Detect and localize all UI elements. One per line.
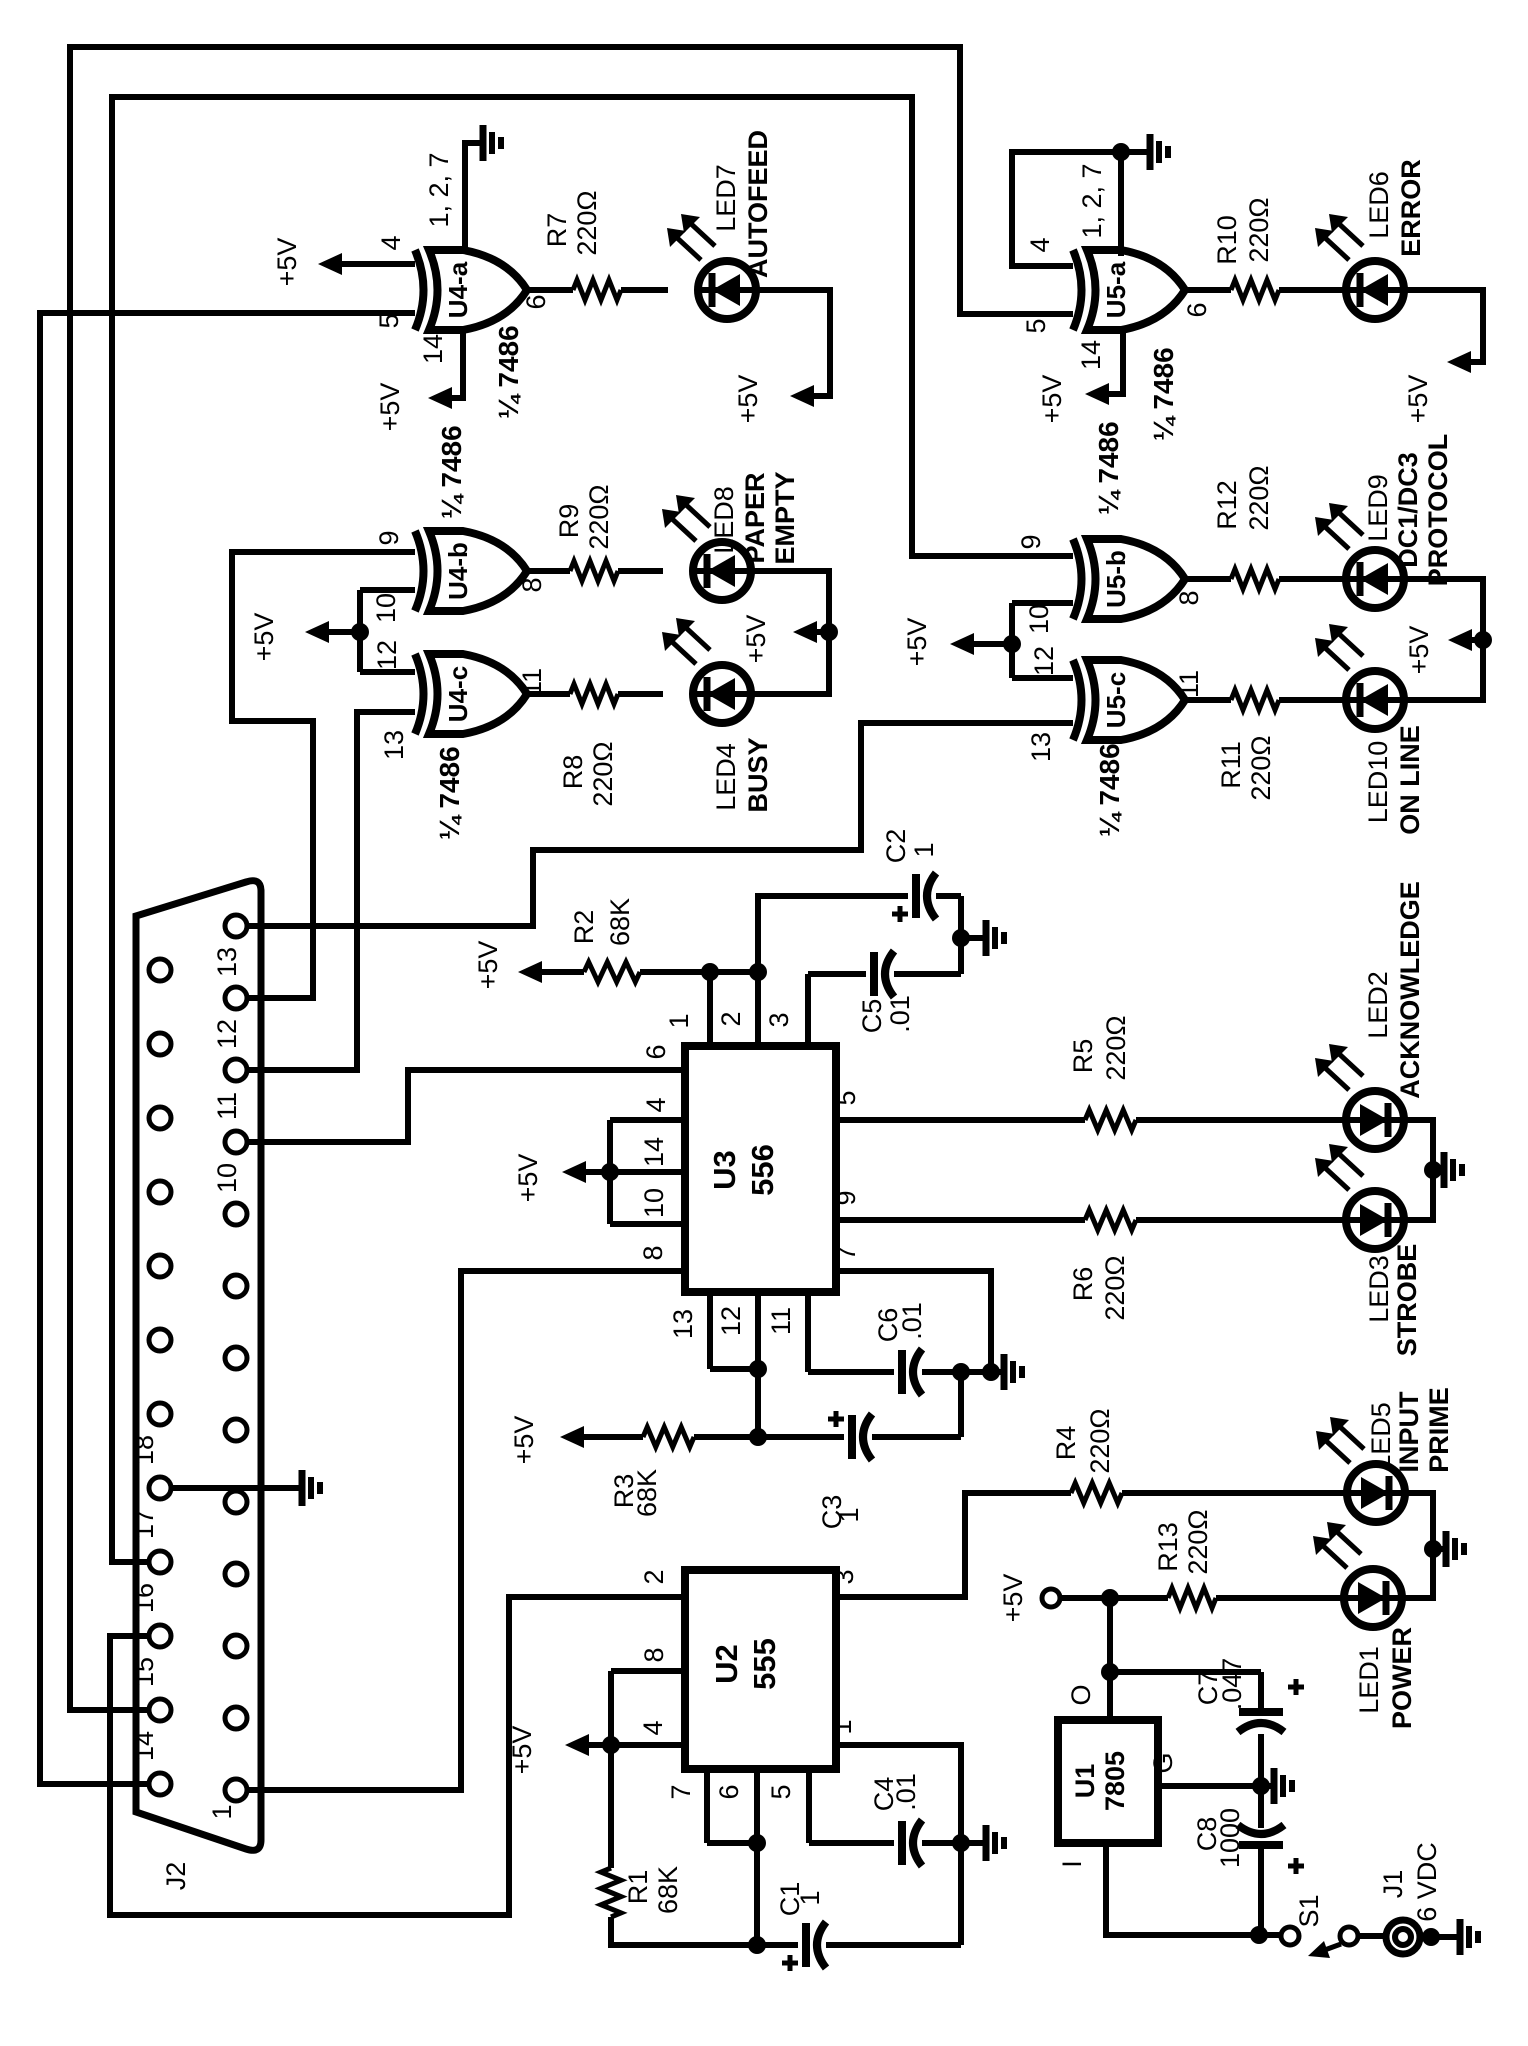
wire J2 pin 15 to U5-a pin 5 xyxy=(70,47,1073,1710)
svg-text:68K: 68K xyxy=(605,898,635,946)
svg-text:7: 7 xyxy=(666,1784,696,1799)
svg-text:14: 14 xyxy=(129,1731,159,1761)
svg-text:11: 11 xyxy=(766,1307,796,1335)
+5V arrow at U4 pins 10,12 xyxy=(351,623,369,641)
J2 pin 19 xyxy=(149,1403,171,1425)
xor gate U4-b (1/4 7486) xyxy=(415,531,424,611)
+5V terminal xyxy=(1042,1589,1060,1607)
+5V arrow at U2 pin 4 xyxy=(602,1736,620,1754)
svg-text:POWER: POWER xyxy=(1387,1627,1417,1729)
svg-text:3: 3 xyxy=(764,1012,794,1027)
svg-text:¼ 7486: ¼ 7486 xyxy=(436,425,467,518)
svg-text:8: 8 xyxy=(638,1245,668,1260)
svg-text:3: 3 xyxy=(829,1569,859,1584)
wire U2 pin 3 to R4 xyxy=(836,1493,1071,1597)
svg-text:1: 1 xyxy=(207,1804,237,1819)
svg-text:+5V: +5V xyxy=(741,615,771,664)
wire U4-b pin 10 / U4-c pin 12 tie xyxy=(360,587,415,593)
svg-text:7805: 7805 xyxy=(1100,1751,1130,1811)
svg-text:10: 10 xyxy=(371,593,401,623)
svg-text:11: 11 xyxy=(212,1092,242,1120)
resistor R11 220 ohm xyxy=(1185,697,1231,703)
svg-text:R8: R8 xyxy=(558,755,588,790)
svg-text:16: 16 xyxy=(129,1583,159,1613)
svg-text:J1: J1 xyxy=(1378,1870,1408,1899)
svg-text:15: 15 xyxy=(129,1657,159,1687)
wire U2 pin 8/4 tie xyxy=(611,1668,685,1674)
resistor R4 220 ohm xyxy=(1071,1483,1122,1503)
svg-text:14: 14 xyxy=(1076,340,1106,370)
capacitor C2 1uF xyxy=(758,896,908,972)
J2 pin 21 xyxy=(149,1255,171,1277)
svg-text:¼ 7486: ¼ 7486 xyxy=(1094,743,1125,836)
svg-text:R1: R1 xyxy=(623,1870,653,1905)
wire U2 pin 1 to ground xyxy=(836,1745,961,1843)
ground at LED2/LED3 xyxy=(1404,1120,1433,1220)
resistor R9 220 ohm xyxy=(527,568,570,574)
resistor R13 220 ohm xyxy=(1168,1588,1216,1608)
svg-text:O: O xyxy=(1066,1684,1096,1705)
svg-text:8: 8 xyxy=(639,1647,669,1662)
resistor R10 220 ohm xyxy=(1185,287,1231,293)
svg-text:INPUT: INPUT xyxy=(1394,1391,1424,1473)
svg-text:U1: U1 xyxy=(1070,1764,1100,1799)
svg-text:+5V: +5V xyxy=(509,1416,539,1465)
svg-text:68K: 68K xyxy=(653,1866,683,1914)
svg-text:13: 13 xyxy=(1026,732,1056,762)
svg-text:6: 6 xyxy=(521,294,551,309)
svg-text:8: 8 xyxy=(1174,590,1204,605)
+5V arrow at LED6 return xyxy=(1404,290,1483,362)
svg-text:17: 17 xyxy=(129,1509,159,1539)
svg-text:U4-c: U4-c xyxy=(443,666,473,722)
svg-text:R4: R4 xyxy=(1051,1426,1081,1461)
xor gate U5-b (1/4 7486) xyxy=(1073,539,1082,619)
svg-text:+5V: +5V xyxy=(272,238,302,287)
svg-text:R2: R2 xyxy=(569,910,599,945)
regulator U1 7805 xyxy=(1058,1720,1158,1843)
xor gate U5-a (1/4 7486) xyxy=(1073,250,1082,330)
wire U3 pin 4/14/10 tie xyxy=(610,1117,685,1123)
J2 pin 16 xyxy=(149,1625,171,1647)
svg-text:10: 10 xyxy=(212,1163,242,1193)
svg-text:.01: .01 xyxy=(891,1773,921,1811)
svg-text:LED6: LED6 xyxy=(1364,171,1394,239)
wire U3 pin 7 to ground xyxy=(836,1271,991,1372)
+5V arrow at U3 pin 14 xyxy=(601,1163,619,1181)
svg-text:220Ω: 220Ω xyxy=(588,741,618,806)
svg-text:14: 14 xyxy=(418,334,448,364)
svg-text:5: 5 xyxy=(766,1784,796,1799)
svg-text:R7: R7 xyxy=(542,213,572,248)
switch S1 xyxy=(1281,1927,1299,1945)
timer U3 556 xyxy=(685,1046,836,1292)
J2 pin 1 xyxy=(225,1779,247,1801)
node U3 pin 1 xyxy=(701,963,719,981)
wire J2 pin 16 to U2 pin 2 xyxy=(110,1597,685,1915)
svg-text:R10: R10 xyxy=(1212,215,1242,265)
J2 pin 8 xyxy=(225,1275,247,1297)
svg-text:4: 4 xyxy=(638,1720,668,1735)
svg-text:+5V: +5V xyxy=(902,618,932,667)
wire U1 pin O to +5V node xyxy=(1107,1598,1113,1720)
node U3 pin 2 xyxy=(749,963,767,981)
svg-text:I: I xyxy=(1057,1860,1087,1868)
svg-text:R11: R11 xyxy=(1216,741,1246,789)
resistor R12 220 ohm xyxy=(1185,576,1231,582)
svg-text:2: 2 xyxy=(716,1011,746,1026)
svg-text:¼ 7486: ¼ 7486 xyxy=(1148,347,1179,440)
J2 pin 15 xyxy=(149,1699,171,1721)
svg-text:9: 9 xyxy=(1016,534,1046,549)
svg-text:6 VDC: 6 VDC xyxy=(1412,1842,1442,1922)
svg-text:+5V: +5V xyxy=(507,1726,537,1775)
svg-text:6: 6 xyxy=(714,1784,744,1799)
+5V arrow at LED9/LED10 return xyxy=(1404,579,1483,700)
svg-text:J2: J2 xyxy=(161,1862,191,1891)
svg-text:U2: U2 xyxy=(709,1644,744,1684)
svg-text:LED3: LED3 xyxy=(1364,1255,1394,1323)
svg-text:DC1/DC3: DC1/DC3 xyxy=(1393,452,1423,568)
svg-text:9: 9 xyxy=(831,1190,861,1205)
svg-text:+5V: +5V xyxy=(249,613,279,662)
svg-text:LED1: LED1 xyxy=(1354,1646,1384,1714)
LED8 PAPER EMPTY xyxy=(693,542,751,600)
wire U1 pin I to S1 xyxy=(1106,1843,1281,1935)
node R13/U1 xyxy=(1101,1589,1119,1607)
resistor R5 220 ohm xyxy=(836,1117,1085,1123)
svg-text:6: 6 xyxy=(1182,302,1212,317)
svg-text:220Ω: 220Ω xyxy=(572,190,602,255)
svg-text:220Ω: 220Ω xyxy=(1101,1015,1131,1080)
ground at U5-a pins 1,2,7 xyxy=(1112,143,1130,161)
svg-text:R6: R6 xyxy=(1068,1267,1098,1302)
capacitor C7 .047 xyxy=(1110,1669,1261,1675)
svg-text:AUTOFEED: AUTOFEED xyxy=(743,130,773,278)
svg-text:.047: .047 xyxy=(1217,1658,1247,1711)
timer U2 555 xyxy=(685,1570,836,1769)
capacitor C6 .01 xyxy=(805,1292,811,1372)
svg-text:1, 2, 7: 1, 2, 7 xyxy=(1077,163,1107,238)
svg-text:LED4: LED4 xyxy=(711,743,741,811)
wire U5-a pin 4 loop xyxy=(1012,152,1121,266)
J2 pin 2 xyxy=(225,1707,247,1729)
svg-text:R12: R12 xyxy=(1212,480,1242,530)
xor gate U4-a (1/4 7486) xyxy=(415,250,424,330)
+5V arrow at LED8/LED4 return xyxy=(751,571,829,694)
svg-text:220Ω: 220Ω xyxy=(1244,465,1274,530)
svg-text:8: 8 xyxy=(517,577,547,592)
svg-text:+5V: +5V xyxy=(1037,375,1067,424)
svg-text:556: 556 xyxy=(745,1144,780,1196)
ground at J1 xyxy=(1420,1934,1432,1940)
svg-text:EMPTY: EMPTY xyxy=(770,471,800,564)
svg-text:12: 12 xyxy=(212,1019,242,1049)
LED1 POWER xyxy=(1344,1569,1402,1627)
svg-text:+5V: +5V xyxy=(1403,375,1433,424)
J2 pin 9 xyxy=(225,1203,247,1225)
connector J2 (DB25) xyxy=(136,881,261,1851)
svg-text:LED2: LED2 xyxy=(1363,971,1393,1039)
J2 pin 24 xyxy=(149,1033,171,1055)
svg-text:+5V: +5V xyxy=(473,941,503,990)
svg-text:LED5: LED5 xyxy=(1366,1402,1396,1470)
+5V arrow at U4-a pin 14 xyxy=(446,330,463,398)
svg-text:¼ 7486: ¼ 7486 xyxy=(434,746,465,839)
LED7 AUTOFEED xyxy=(698,261,756,319)
wire J2 pin 11 to U4-c pin 13 xyxy=(247,712,415,1070)
resistor R8 220 ohm xyxy=(527,691,570,697)
svg-text:555: 555 xyxy=(747,1638,782,1690)
svg-text:C2: C2 xyxy=(881,829,911,864)
+5V arrow at U5 pins 10,12 xyxy=(1003,635,1021,653)
LED4 BUSY xyxy=(693,665,751,723)
svg-text:7: 7 xyxy=(831,1245,861,1260)
ground at C2/C5 xyxy=(952,929,970,947)
svg-text:¼ 7486: ¼ 7486 xyxy=(493,325,524,418)
svg-text:U4-a: U4-a xyxy=(443,261,473,318)
svg-text:LED10: LED10 xyxy=(1363,741,1393,824)
capacitor C3 1uF xyxy=(749,1428,767,1446)
LED5 INPUT PRIME xyxy=(1347,1464,1405,1522)
svg-text:1: 1 xyxy=(827,1719,857,1734)
svg-text:+5V: +5V xyxy=(733,375,763,424)
capacitor C5 .01 xyxy=(805,974,811,1046)
+5V arrow at LED7 return xyxy=(756,290,830,396)
svg-text:6: 6 xyxy=(641,1044,671,1059)
svg-text:12: 12 xyxy=(372,640,402,670)
svg-text:220Ω: 220Ω xyxy=(1244,197,1274,262)
ground at U2 pin 1 / C4 / C1 xyxy=(952,1834,970,1852)
J2 pin 25 xyxy=(149,959,171,981)
J2 pin 23 xyxy=(149,1107,171,1129)
J2 pin 7 xyxy=(225,1347,247,1369)
svg-text:R13: R13 xyxy=(1153,1522,1183,1572)
svg-text:9: 9 xyxy=(374,530,404,545)
svg-text:G: G xyxy=(1148,1752,1178,1773)
wire U3 pin 13/12 tie xyxy=(707,1292,713,1369)
J2 pin 11 xyxy=(225,1059,247,1081)
svg-text:U5-c: U5-c xyxy=(1101,672,1131,728)
svg-text:13: 13 xyxy=(668,1309,698,1339)
svg-text:.01: .01 xyxy=(885,995,915,1033)
svg-text:11: 11 xyxy=(1174,670,1204,698)
svg-text:13: 13 xyxy=(212,947,242,977)
svg-text:PRIME: PRIME xyxy=(1424,1387,1454,1473)
ground at U4-a pins 1,2,7 xyxy=(465,143,473,250)
LED2 ACKNOWLEDGE xyxy=(1346,1091,1404,1149)
wire J2 pin 10 to U3 pin 6 xyxy=(247,1070,685,1142)
svg-text:U5-b: U5-b xyxy=(1101,550,1131,608)
svg-text:2: 2 xyxy=(639,1569,669,1584)
wire J2 pin 13 to U5-c pin 13 xyxy=(247,723,1073,926)
svg-text:220Ω: 220Ω xyxy=(1100,1255,1130,1320)
J2 pin 22 xyxy=(149,1181,171,1203)
svg-text:12: 12 xyxy=(1029,646,1059,676)
capacitor C1 1uF xyxy=(757,1942,798,1948)
svg-text:PROTOCOL: PROTOCOL xyxy=(1423,434,1453,587)
capacitor C8 1000uF xyxy=(1258,1786,1264,1828)
svg-text:ERROR: ERROR xyxy=(1396,159,1426,257)
J2 pin 3 xyxy=(225,1635,247,1657)
svg-text:ON LINE: ON LINE xyxy=(1395,725,1425,835)
svg-text:LED8: LED8 xyxy=(709,486,739,554)
svg-text:.01: .01 xyxy=(897,1302,927,1340)
svg-text:10: 10 xyxy=(639,1188,669,1218)
svg-text:C5: C5 xyxy=(857,999,887,1034)
svg-text:1: 1 xyxy=(834,1507,864,1522)
svg-text:10: 10 xyxy=(1024,604,1054,634)
svg-text:5: 5 xyxy=(1021,318,1051,333)
svg-text:LED9: LED9 xyxy=(1363,474,1393,542)
wire U2 pin 7/6 tie xyxy=(704,1769,710,1843)
LED6 ERROR xyxy=(1346,261,1404,319)
svg-text:ACKNOWLEDGE: ACKNOWLEDGE xyxy=(1395,881,1425,1099)
svg-text:R9: R9 xyxy=(554,504,584,539)
svg-text:1, 2, 7: 1, 2, 7 xyxy=(424,152,454,227)
ground at U1 G / C7 / C8 xyxy=(1252,1777,1270,1795)
wire J2 pin 17 to U5-b pin 9 xyxy=(112,97,1073,1562)
capacitor C4 .01 xyxy=(806,1769,812,1843)
svg-text:68K: 68K xyxy=(632,1469,662,1517)
svg-text:STROBE: STROBE xyxy=(1392,1244,1422,1357)
J2 pin 18 xyxy=(149,1477,171,1499)
svg-text:S1: S1 xyxy=(1294,1894,1324,1927)
xor gate U5-c (1/4 7486) xyxy=(1073,660,1082,740)
svg-text:220Ω: 220Ω xyxy=(1085,1408,1115,1473)
svg-text:4: 4 xyxy=(641,1097,671,1112)
svg-text:5: 5 xyxy=(374,313,404,328)
wire J2 pin 14 to U4-a pin 5 xyxy=(40,313,415,1784)
svg-text:5: 5 xyxy=(831,1090,861,1105)
svg-text:+5V: +5V xyxy=(513,1154,543,1203)
J2 pin 14 xyxy=(149,1773,171,1795)
ground at J2 pin 18 xyxy=(171,1485,298,1491)
wire J2 pin 12 to U4-b pin 9 xyxy=(232,552,415,998)
svg-text:12: 12 xyxy=(716,1306,746,1336)
resistor R2 68K xyxy=(584,962,640,982)
J2 pin 10 xyxy=(225,1131,247,1153)
svg-text:220Ω: 220Ω xyxy=(1183,1509,1213,1574)
svg-text:R5: R5 xyxy=(1068,1039,1098,1074)
svg-text:220Ω: 220Ω xyxy=(584,484,614,549)
svg-text:+5V: +5V xyxy=(1404,626,1434,675)
LED10 ON LINE xyxy=(1346,671,1404,729)
resistor R1 68K xyxy=(608,1745,614,1868)
svg-text:+5V: +5V xyxy=(998,1574,1028,1623)
svg-text:1: 1 xyxy=(795,1890,825,1905)
svg-text:14: 14 xyxy=(639,1137,669,1167)
svg-text:18: 18 xyxy=(129,1435,159,1465)
+5V arrow at U5-a pin 14 xyxy=(1103,330,1123,394)
svg-text:13: 13 xyxy=(379,730,409,760)
wire J2 pin 1 to U3 pin 8 xyxy=(247,1271,685,1790)
J2 pin 20 xyxy=(149,1329,171,1351)
J2 pin 6 xyxy=(225,1419,247,1441)
svg-text:U3: U3 xyxy=(707,1150,742,1190)
svg-text:1000: 1000 xyxy=(1215,1808,1245,1868)
svg-text:4: 4 xyxy=(1025,237,1055,252)
jack J1 6 VDC xyxy=(1358,1933,1386,1939)
svg-text:LED7: LED7 xyxy=(711,164,741,232)
svg-text:U4-b: U4-b xyxy=(443,542,473,600)
LED3 STROBE xyxy=(1346,1191,1404,1249)
svg-text:U5-a: U5-a xyxy=(1101,261,1131,318)
svg-text:PAPER: PAPER xyxy=(740,472,770,563)
svg-text:¼ 7486: ¼ 7486 xyxy=(1093,421,1124,514)
+5V arrow at U4-a pin 4 xyxy=(336,261,415,267)
resistor R3 68K xyxy=(643,1427,694,1447)
resistor R6 220 ohm xyxy=(836,1217,1085,1223)
J2 pin 13 xyxy=(225,915,247,937)
ground at U3 pin 7 / C6 / C3 xyxy=(952,1363,970,1381)
LED9 DC1/DC3 PROTOCOL xyxy=(1346,550,1404,608)
J2 pin 12 xyxy=(225,987,247,1009)
wire U1 pin G to ground xyxy=(1158,1783,1261,1789)
xor gate U4-c (1/4 7486) xyxy=(415,654,424,734)
svg-text:BUSY: BUSY xyxy=(743,737,773,812)
ground at LED5/LED1 xyxy=(1402,1493,1433,1598)
svg-text:4: 4 xyxy=(376,235,406,250)
svg-text:+5V: +5V xyxy=(375,383,405,432)
J2 pin 17 xyxy=(149,1551,171,1573)
svg-text:220Ω: 220Ω xyxy=(1246,735,1276,800)
J2 pin 4 xyxy=(225,1563,247,1585)
svg-text:1: 1 xyxy=(909,842,939,857)
wire U5-b pin 10 / U5-c pin 12 tie xyxy=(1012,600,1073,606)
J2 pin 5 xyxy=(225,1491,247,1513)
svg-text:1: 1 xyxy=(664,1013,694,1028)
resistor R7 220 ohm xyxy=(527,287,573,293)
